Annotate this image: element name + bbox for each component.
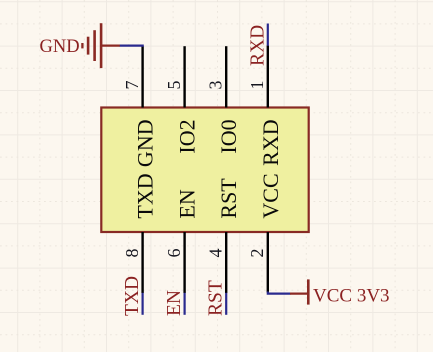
svg-text:4: 4 [205, 249, 225, 258]
pin 5 (IO2) line [183, 46, 185, 107]
wire stub pin 1 (RXD net) [267, 24, 269, 46]
svg-text:RST: RST [216, 178, 241, 219]
svg-text:RST: RST [206, 280, 227, 316]
svg-text:7: 7 [122, 81, 142, 90]
pin 4 (RST) line [225, 232, 227, 293]
pin 1 (RXD) line [267, 46, 269, 108]
pin 2 (VCC) line [267, 232, 269, 292]
wire GND to pin 7 [120, 44, 144, 46]
svg-text:RXD: RXD [258, 119, 283, 165]
svg-text:EN: EN [175, 189, 200, 218]
svg-text:IO0: IO0 [216, 119, 241, 153]
VCC 3V3 power port [290, 279, 308, 304]
svg-text:IO2: IO2 [175, 119, 200, 153]
svg-text:TXD: TXD [122, 276, 143, 316]
wire stub pin 4 (RST net) [225, 293, 227, 315]
wire stub pin 8 (TXD net) [142, 293, 144, 315]
svg-text:VCC 3V3: VCC 3V3 [313, 286, 390, 307]
pin 3 (IO0) line [225, 46, 227, 107]
svg-text:GND: GND [40, 37, 80, 57]
svg-text:1: 1 [247, 81, 267, 90]
pin 8 (TXD) line [141, 232, 143, 293]
svg-text:GND: GND [133, 119, 158, 167]
pin 6 (EN) line [183, 232, 185, 293]
svg-text:2: 2 [247, 249, 267, 258]
component U? body [101, 108, 308, 233]
ground symbol [82, 23, 119, 68]
wire stub pin 6 (EN net) [184, 293, 186, 315]
wire pin 2 to VCC port [268, 292, 291, 294]
svg-text:3: 3 [205, 81, 225, 90]
svg-text:TXD: TXD [133, 173, 158, 218]
svg-text:6: 6 [164, 249, 184, 258]
svg-text:RXD: RXD [247, 25, 268, 66]
svg-text:8: 8 [122, 249, 142, 258]
pin 7 (GND) line [141, 46, 143, 107]
svg-text:EN: EN [164, 290, 185, 316]
svg-text:VCC: VCC [258, 173, 283, 218]
svg-text:5: 5 [164, 81, 184, 90]
